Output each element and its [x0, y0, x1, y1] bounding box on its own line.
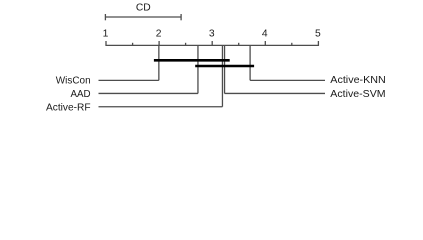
svg-text:Active-SVM: Active-SVM — [330, 89, 385, 100]
svg-text:WisCon: WisCon — [56, 75, 91, 86]
svg-text:Active-RF: Active-RF — [46, 102, 91, 113]
svg-text:1: 1 — [103, 29, 109, 40]
svg-text:4: 4 — [262, 29, 268, 40]
svg-text:5: 5 — [315, 29, 321, 40]
svg-text:2: 2 — [156, 29, 162, 40]
svg-text:Active-KNN: Active-KNN — [330, 75, 386, 86]
svg-text:CD: CD — [136, 3, 151, 14]
svg-text:AAD: AAD — [71, 89, 91, 100]
svg-text:3: 3 — [209, 29, 215, 40]
